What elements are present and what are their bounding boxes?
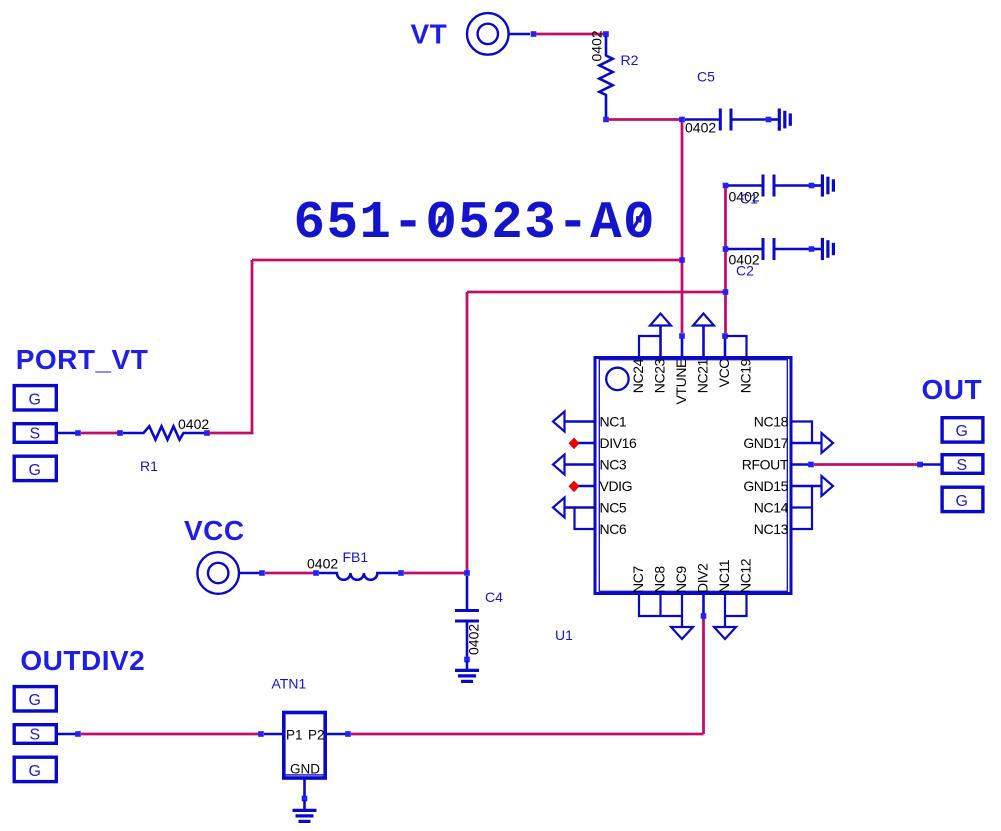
svg-text:G: G xyxy=(29,462,41,479)
svg-text:NC12: NC12 xyxy=(738,558,754,593)
wire OUTDIV2 S stub xyxy=(57,733,76,736)
ground for C2 xyxy=(814,238,833,260)
arrow up NC21 xyxy=(693,314,714,326)
node VT junction xyxy=(531,31,537,37)
port OUT box G2 xyxy=(942,487,983,511)
pin NC11 stub xyxy=(724,592,726,617)
bracket GND15-NC14-NC13 xyxy=(811,485,813,530)
port OUTDIV2 box S xyxy=(14,725,56,744)
wire R1 to rail1 xyxy=(209,432,253,435)
svg-text:NC18: NC18 xyxy=(754,414,789,430)
svg-text:NC3: NC3 xyxy=(600,457,627,473)
svg-text:NC9: NC9 xyxy=(673,566,689,593)
pin RFOUT stub xyxy=(791,463,809,466)
node rail1 joins VTUNE net xyxy=(679,257,685,263)
node FB1 right xyxy=(398,570,404,576)
svg-text:R2: R2 xyxy=(621,52,639,68)
pin DIV16 stub xyxy=(577,442,595,445)
node ATN1 gnd xyxy=(302,796,308,802)
wire VCC stub xyxy=(239,572,260,575)
arrow right GND17 xyxy=(822,433,834,453)
svg-text:VDIG: VDIG xyxy=(600,478,633,494)
pin GND underline xyxy=(286,774,325,776)
svg-text:0402: 0402 xyxy=(178,416,209,432)
wire FB1 to C4 node xyxy=(404,572,467,575)
wire stub from ATN1 P2 xyxy=(326,733,346,736)
svg-text:G: G xyxy=(29,763,41,780)
svg-text:G: G xyxy=(956,423,968,440)
node C1 xyxy=(723,183,729,189)
wire rail1 vertical xyxy=(251,260,254,433)
arrow left NC1 xyxy=(553,412,565,432)
svg-text:651-0523-A0: 651-0523-A0 xyxy=(294,193,657,253)
wire S to ATN1 xyxy=(81,733,259,736)
ground for ATN1 xyxy=(293,800,317,821)
svg-text:0402: 0402 xyxy=(307,556,338,572)
pin NC23 stub xyxy=(659,326,662,359)
node OUT S xyxy=(917,462,923,468)
svg-text:0402: 0402 xyxy=(685,120,716,136)
arrow left NC5 xyxy=(553,498,565,518)
wire VCC net vertical xyxy=(724,188,727,333)
wire VCC to FB1 xyxy=(265,572,314,575)
node C1 ground junction xyxy=(809,183,815,189)
pin NC8 stub xyxy=(659,592,661,616)
wire PORT_VT S stub xyxy=(57,432,76,435)
node RFOUT xyxy=(808,462,814,468)
pin NC14 stub xyxy=(791,506,812,508)
ground for C5 xyxy=(771,109,790,131)
wire stub to ATN1 P1 xyxy=(264,733,283,736)
svg-text:S: S xyxy=(30,425,41,442)
svg-text:0402: 0402 xyxy=(589,30,605,61)
pin NC18 stub and bracket xyxy=(791,420,812,422)
wire RFOUT magenta xyxy=(814,463,918,466)
node rail2 joins VCC net xyxy=(723,289,729,295)
svg-text:ATN1: ATN1 xyxy=(272,675,307,691)
port PORT_VT box S xyxy=(14,424,56,443)
op-amp U1 outer body xyxy=(595,358,791,594)
svg-text:DIV2: DIV2 xyxy=(695,563,711,593)
title slashed zero 1 xyxy=(434,207,450,233)
port OUTDIV2 box G2 xyxy=(14,757,56,781)
node FB1 left xyxy=(313,570,319,576)
pin NC9 stub xyxy=(681,592,683,617)
port VCC connector circle xyxy=(197,552,239,594)
pin NC7 stub and bracket xyxy=(638,592,640,616)
arrow down NC11 xyxy=(724,616,726,628)
pin NC13 stub xyxy=(791,528,812,530)
svg-text:VCC: VCC xyxy=(184,515,245,546)
port PORT_VT box G2 xyxy=(14,456,56,480)
U1 inner border xyxy=(599,360,787,592)
red dot VDIG xyxy=(569,481,579,491)
wire rail2 horizontal xyxy=(467,291,723,294)
U1 pin1 indicator circle xyxy=(606,368,628,390)
ground for C1 xyxy=(814,174,833,196)
resistor R1 xyxy=(123,426,205,439)
svg-text:DIV16: DIV16 xyxy=(600,435,638,451)
svg-text:NC5: NC5 xyxy=(600,500,627,516)
pin GND15 stub xyxy=(791,485,822,488)
node ATN1 right xyxy=(345,731,351,737)
svg-text:C4: C4 xyxy=(485,589,503,605)
svg-text:R1: R1 xyxy=(140,458,158,474)
svg-text:PORT_VT: PORT_VT xyxy=(16,344,149,375)
title slashed zero 2 xyxy=(631,207,647,233)
attenuator ATN1 xyxy=(284,713,325,779)
svg-text:P1: P1 xyxy=(286,728,303,743)
svg-text:NC19: NC19 xyxy=(738,358,754,393)
arrow left NC3 xyxy=(553,455,565,475)
arrow right GND15 xyxy=(822,476,834,496)
svg-text:C2: C2 xyxy=(736,263,754,279)
svg-text:NC11: NC11 xyxy=(716,559,732,593)
svg-text:S: S xyxy=(957,457,968,474)
wire rail2 vertical xyxy=(466,292,469,571)
resistor R2 xyxy=(599,36,612,118)
pin NC3 stub xyxy=(565,463,595,466)
inductor FB1 xyxy=(319,573,398,580)
svg-text:OUT: OUT xyxy=(922,374,983,405)
ground for C4 xyxy=(455,661,479,681)
port VT connector circle xyxy=(467,13,509,55)
pin GND17 stub xyxy=(791,442,822,445)
port OUT box G1 xyxy=(942,418,983,442)
node C4 ground junction xyxy=(464,657,470,663)
svg-text:C5: C5 xyxy=(697,69,715,85)
node C5 ground junction xyxy=(766,117,772,123)
capacitor C2 xyxy=(728,238,810,260)
port OUTDIV2 box G1 xyxy=(14,687,56,711)
red dot DIV16 xyxy=(569,438,579,448)
node R1 left xyxy=(117,430,123,436)
pin VDIG stub xyxy=(577,485,595,488)
pin NC21 stub xyxy=(702,326,705,359)
svg-text:G: G xyxy=(29,692,41,709)
capacitor C1 xyxy=(728,175,810,197)
svg-text:U1: U1 xyxy=(555,627,573,643)
pin NC19 stub and bracket xyxy=(745,336,747,359)
svg-text:VTUNE: VTUNE xyxy=(673,359,689,405)
pin DIV2 stub xyxy=(702,592,705,614)
node S1 xyxy=(75,430,81,436)
node C4 top junction xyxy=(464,570,470,576)
wire OUT S stub xyxy=(922,463,941,466)
node C2 ground junction xyxy=(809,246,815,252)
svg-text:RFOUT: RFOUT xyxy=(742,457,789,473)
svg-text:NC14: NC14 xyxy=(754,500,789,516)
pin NC12 stub and bracket xyxy=(745,592,747,616)
port OUT box S xyxy=(942,455,983,474)
wire VT to R2 xyxy=(536,33,606,36)
svg-text:G: G xyxy=(29,391,41,408)
node S2 xyxy=(75,731,81,737)
port PORT_VT box G1 xyxy=(14,386,56,410)
svg-text:NC7: NC7 xyxy=(630,566,646,593)
svg-text:C1: C1 xyxy=(740,191,758,207)
svg-text:NC1: NC1 xyxy=(600,414,627,430)
svg-text:G: G xyxy=(956,493,968,510)
node R2 bottom xyxy=(603,117,609,123)
arrow down NC9 xyxy=(681,616,683,628)
svg-text:NC6: NC6 xyxy=(600,521,627,537)
wire ATN1 to DIV2 horizontal xyxy=(351,733,704,736)
svg-text:VT: VT xyxy=(411,19,448,50)
svg-text:NC13: NC13 xyxy=(754,521,789,537)
pin VTUNE stub xyxy=(681,336,684,359)
node R2 top xyxy=(603,31,609,37)
svg-text:S: S xyxy=(30,727,41,744)
arrow up NC23 xyxy=(650,314,671,326)
wire rail1 horizontal xyxy=(252,259,680,262)
wire ATN1 GND stub xyxy=(303,779,306,798)
svg-text:FB1: FB1 xyxy=(343,549,369,565)
svg-text:VCC: VCC xyxy=(716,359,732,388)
pin VCC stub xyxy=(724,336,727,359)
capacitor C4 xyxy=(455,576,479,658)
svg-text:NC21: NC21 xyxy=(695,358,711,393)
pin NC6 stub and bracket xyxy=(575,528,596,530)
node C2 xyxy=(723,246,729,252)
wire R2 to C5 node xyxy=(608,118,682,121)
wire S to R1 xyxy=(81,432,118,435)
node R1 right xyxy=(204,430,210,436)
svg-text:GND15: GND15 xyxy=(743,478,788,494)
node DIV2 xyxy=(701,613,707,619)
wire VT stub xyxy=(509,33,530,36)
svg-text:OUTDIV2: OUTDIV2 xyxy=(20,645,145,676)
pin NC1 stub xyxy=(565,420,595,423)
svg-text:NC24: NC24 xyxy=(630,358,646,393)
pin NC5 stub xyxy=(565,506,595,509)
capacitor C5 xyxy=(685,109,767,131)
svg-text:NC23: NC23 xyxy=(652,358,668,393)
svg-text:NC8: NC8 xyxy=(652,566,668,593)
node ATN1 left xyxy=(258,731,264,737)
node VCC1 xyxy=(259,570,265,576)
wire vertical VTUNE net xyxy=(681,122,684,333)
svg-text:P2: P2 xyxy=(308,728,325,743)
node VCC pin xyxy=(722,333,728,339)
svg-text:GND17: GND17 xyxy=(743,435,788,451)
node VTUNE xyxy=(679,333,685,339)
pin NC24 stub and bracket xyxy=(638,336,640,359)
wire DIV2 vertical xyxy=(702,618,705,734)
node C5 xyxy=(679,117,685,123)
svg-text:0402: 0402 xyxy=(466,624,482,655)
